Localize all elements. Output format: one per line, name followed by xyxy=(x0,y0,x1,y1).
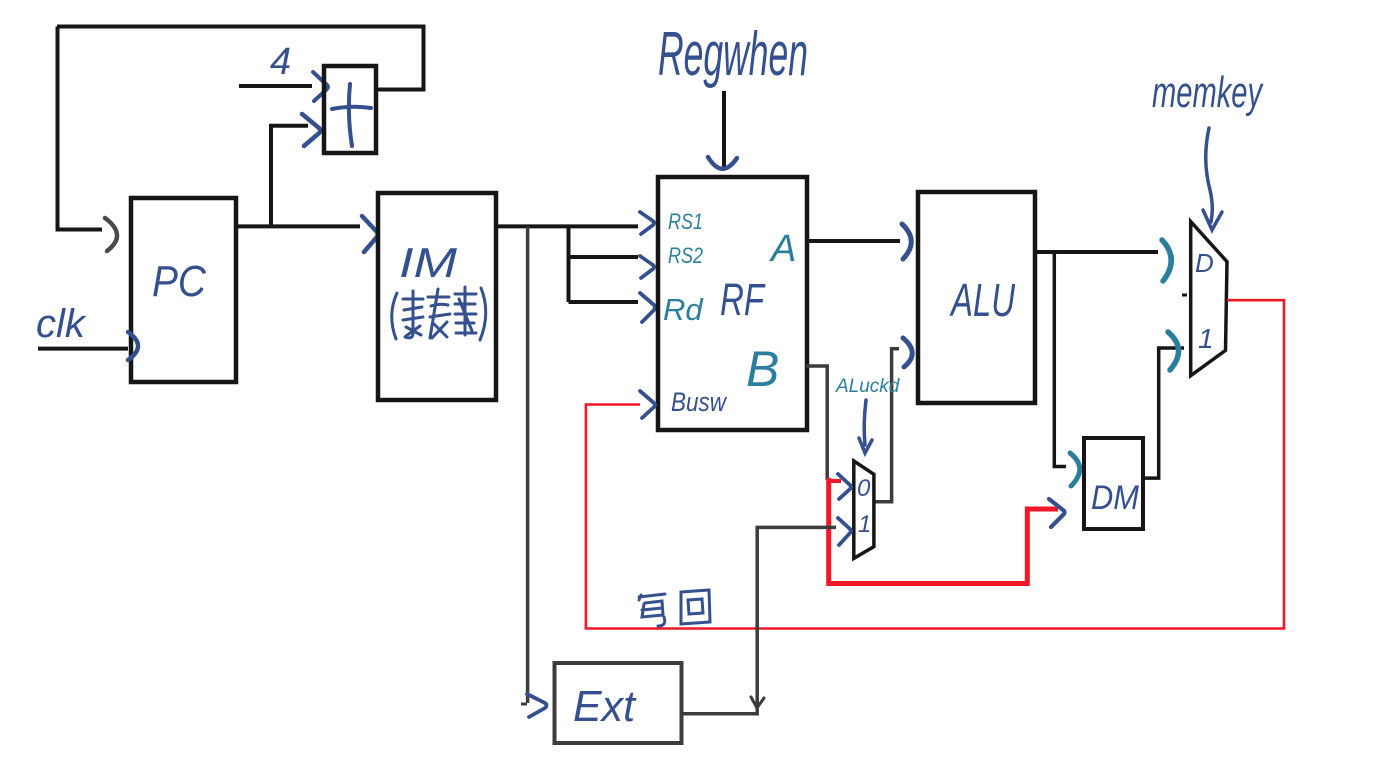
svg-text:RS2: RS2 xyxy=(668,243,703,268)
wire: constant 4 into adder xyxy=(239,84,312,88)
svg-text:clk: clk xyxy=(36,302,87,346)
label write-back (Chinese) scribble xyxy=(639,590,710,626)
wire: RS2 input xyxy=(569,255,639,259)
arrowhead Regwhen xyxy=(708,157,737,169)
sign extender Ext xyxy=(555,663,682,743)
svg-text:DM: DM xyxy=(1091,479,1140,517)
register PC xyxy=(131,198,236,382)
small arrowhead at Ext output corner xyxy=(751,697,764,708)
arrowhead A into ALU xyxy=(902,224,911,259)
svg-text:RS1: RS1 xyxy=(668,209,703,234)
wire: PC output to IM xyxy=(236,224,360,228)
arrowhead B into ALU xyxy=(903,338,912,367)
label (instruction store) scribble xyxy=(392,287,486,340)
arrowhead into Busw xyxy=(640,391,655,418)
wire: branch for RS2 and Rd xyxy=(567,226,571,302)
ALUckd control arrow xyxy=(859,400,872,453)
wire: branch down to Ext xyxy=(526,226,530,703)
svg-text:RF: RF xyxy=(720,274,766,325)
svg-text:Ext: Ext xyxy=(573,682,637,731)
svg-text:PC: PC xyxy=(152,257,207,306)
wire: ALU output to out-mux input 0 xyxy=(1035,250,1158,254)
ALU block xyxy=(918,192,1035,403)
memkey control lead curve xyxy=(1203,128,1222,230)
register file RF xyxy=(658,177,807,430)
wire: tick at Ext input xyxy=(521,703,527,706)
wire: mux output up to ALU B input xyxy=(874,349,899,502)
arrowhead RS2 xyxy=(640,256,654,278)
adder block xyxy=(324,66,376,153)
red wire: store data from B to DM write input xyxy=(829,478,1058,584)
arrowhead 4 into adder xyxy=(313,72,328,101)
svg-text:Busw: Busw xyxy=(671,387,727,417)
wire: RF A output to ALU xyxy=(806,239,900,243)
arrowhead PC branch into adder xyxy=(302,114,320,146)
clock input symbol on PC xyxy=(128,332,138,360)
mux M2 (writeback select) trapezoid xyxy=(1191,222,1227,376)
arrowhead into mux M1 input 1 xyxy=(838,518,851,545)
wire: PC value branch up into adder second input xyxy=(271,126,308,227)
arrowhead Rd xyxy=(640,293,655,322)
svg-text:1: 1 xyxy=(1198,323,1214,354)
red wire: writeback from out-mux to Busw xyxy=(586,300,1284,628)
svg-text:Regwhen: Regwhen xyxy=(658,20,808,89)
wire: left vertical down to PC input xyxy=(58,27,103,230)
mux M1 (ALU src) trapezoid xyxy=(854,461,874,558)
svg-text:B: B xyxy=(746,341,779,397)
arrowhead into PC xyxy=(105,218,117,251)
tick mark left of mux M2 xyxy=(1182,294,1187,297)
wire: IM output to RF RS1 xyxy=(496,224,638,228)
red stub at mux M1 input 0 xyxy=(829,479,841,483)
wire: DM output up to out-mux input 1 xyxy=(1143,348,1184,478)
wire: RF B output down to mux0 xyxy=(806,366,827,480)
svg-text:1: 1 xyxy=(858,511,871,538)
arrowhead into mux M1 input 0 xyxy=(838,474,851,499)
wire: Rd input xyxy=(569,300,639,304)
arrowhead teal ALU out into out-mux 0 xyxy=(1162,240,1171,281)
svg-text:Rd: Rd xyxy=(663,292,704,327)
arrowhead RS1 xyxy=(640,212,654,234)
svg-text:IM: IM xyxy=(399,239,457,286)
svg-text:D: D xyxy=(1195,248,1214,278)
wire: Regwhen control into RF xyxy=(722,91,726,168)
svg-text:0: 0 xyxy=(857,475,871,502)
wire: top feedback loop from adder output to PC input xyxy=(57,27,424,90)
adder plus sign xyxy=(332,84,371,146)
arrowhead teal into DM address xyxy=(1070,453,1080,486)
wire: ALU output branch down to DM address xyxy=(1054,252,1066,467)
svg-text:memkey: memkey xyxy=(1152,68,1264,117)
wire: Ext output right and up to mux M1 input 1 xyxy=(682,527,836,713)
svg-text:ALuckd: ALuckd xyxy=(835,376,901,397)
arrowhead into Ext xyxy=(527,694,547,717)
arrowhead into DM write xyxy=(1049,499,1065,527)
wire: clk into PC xyxy=(38,347,128,351)
svg-text:ALU: ALU xyxy=(949,274,1016,326)
memory DM xyxy=(1084,438,1143,529)
svg-text:4: 4 xyxy=(270,41,291,83)
memory IM xyxy=(378,193,496,400)
svg-text:A: A xyxy=(769,228,796,270)
arrowhead teal DM out into out-mux 1 xyxy=(1168,332,1179,370)
arrowhead into IM xyxy=(362,216,378,252)
